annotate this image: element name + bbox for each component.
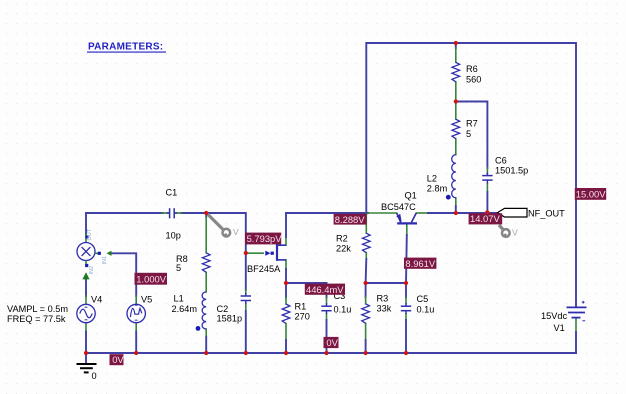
junction node gate of J1 xyxy=(244,251,248,255)
bias label 8.961V xyxy=(404,258,436,269)
svg-text:2.8m: 2.8m xyxy=(427,184,448,194)
wire: bottom ground rail xyxy=(86,352,576,354)
wire: emitter pin wire green xyxy=(368,212,397,214)
capacitor C6 xyxy=(482,173,492,184)
voltage probe 2 xyxy=(499,225,518,238)
capacitor C3 xyxy=(321,303,331,314)
svg-text:OUT: OUT xyxy=(87,228,93,240)
svg-text:FREQ = 77.5k: FREQ = 77.5k xyxy=(7,314,66,324)
svg-text:C6: C6 xyxy=(495,156,507,166)
svg-text:1501.5p: 1501.5p xyxy=(495,166,528,176)
svg-text:22k: 22k xyxy=(336,244,351,254)
svg-text:14.07V: 14.07V xyxy=(470,213,500,224)
inductor L2 xyxy=(452,155,456,198)
wire: C3 branch xyxy=(326,283,328,298)
wire: C1 green pin leads xyxy=(162,212,168,214)
multiplier MULT xyxy=(77,228,112,279)
svg-text:R6: R6 xyxy=(466,64,478,74)
resistor R6 xyxy=(452,62,460,82)
junction node R6 top on supply rail xyxy=(454,41,458,45)
wires layer xyxy=(86,43,576,353)
svg-text:5: 5 xyxy=(176,263,181,273)
resistor R1 xyxy=(282,304,290,324)
junction node C6 bottom on output wire xyxy=(485,210,489,214)
wire: multiplier IN1 to V5 xyxy=(111,253,136,296)
svg-text:BF245A: BF245A xyxy=(247,264,281,274)
svg-text:L1: L1 xyxy=(174,294,184,304)
source V1 15Vdc battery xyxy=(567,307,587,317)
inductor L1 xyxy=(202,292,206,329)
wire: Q1 base down xyxy=(406,225,408,235)
svg-text:V: V xyxy=(512,228,518,238)
wire: JFET source down to source node xyxy=(285,260,287,269)
wire: collector node to NF_OUT xyxy=(416,212,428,214)
wire: multiplier to V4 xyxy=(85,280,87,297)
resistor R3 xyxy=(362,304,370,324)
svg-text:R1: R1 xyxy=(295,302,307,312)
bias label 5.793pV xyxy=(245,233,282,245)
junction node R6/R7/C6 xyxy=(454,99,458,103)
bias label 0V mid xyxy=(324,337,339,348)
junction node R3 bottom xyxy=(364,351,368,355)
source V4 xyxy=(77,304,95,322)
wire: R1 branch xyxy=(285,283,287,298)
svg-text:5: 5 xyxy=(466,129,471,139)
svg-text:33k: 33k xyxy=(377,304,392,314)
svg-text:0: 0 xyxy=(92,371,97,381)
svg-text:5.793pV: 5.793pV xyxy=(247,233,283,244)
bias label 15.00V xyxy=(575,188,606,200)
svg-text:R7: R7 xyxy=(466,119,478,129)
capacitor C1 xyxy=(166,208,177,218)
svg-text:1.000V: 1.000V xyxy=(136,273,166,284)
capacitor C5 xyxy=(401,303,411,314)
resistor R2 xyxy=(363,233,371,253)
transistor Q1 BC547C xyxy=(396,213,417,223)
svg-text:0V: 0V xyxy=(112,354,124,365)
ground 0 xyxy=(77,353,97,381)
svg-text:R2: R2 xyxy=(336,234,348,244)
svg-text:V4: V4 xyxy=(91,295,102,305)
junction node L1 bottom xyxy=(204,351,208,355)
capacitor C2 xyxy=(241,293,251,304)
svg-text:IN2: IN2 xyxy=(89,266,95,275)
svg-text:C2: C2 xyxy=(217,304,229,314)
junction node C3 bottom xyxy=(324,351,328,355)
svg-text:C1: C1 xyxy=(166,188,178,198)
junction node C5 bottom xyxy=(404,351,408,355)
resistor R8 xyxy=(202,253,210,272)
junction node V5 bottom xyxy=(134,351,138,355)
svg-text:IN1: IN1 xyxy=(102,256,108,265)
svg-text:0.1u: 0.1u xyxy=(417,305,435,315)
svg-text:BC547C: BC547C xyxy=(381,202,416,212)
wire: C6 branch xyxy=(456,102,488,169)
svg-text:560: 560 xyxy=(466,75,481,85)
junction node C2 bottom xyxy=(244,351,248,355)
svg-text:R3: R3 xyxy=(377,294,389,304)
junction node R8 top on gate rail xyxy=(204,211,208,215)
svg-text:8.961V: 8.961V xyxy=(405,258,435,269)
svg-text:15Vdc: 15Vdc xyxy=(541,311,567,321)
svg-text:Q1: Q1 xyxy=(405,191,417,201)
wire: V1 bottom to bottom rail xyxy=(575,319,577,332)
JFET J1 BF245A xyxy=(246,244,286,261)
svg-text:C5: C5 xyxy=(417,294,429,304)
junction node Q1 collector / L2 xyxy=(454,211,458,215)
svg-text:0.1u: 0.1u xyxy=(334,305,352,315)
source V5 xyxy=(127,304,145,322)
wire: base node horizontal xyxy=(366,282,406,284)
voltage probe 1 xyxy=(208,214,240,237)
junction node R2/R3 divider xyxy=(364,281,368,285)
bias label 0V left xyxy=(110,354,125,365)
svg-text:PARAMETERS:: PARAMETERS: xyxy=(88,41,163,52)
wire: drain rail to R2 crossing xyxy=(286,212,368,214)
junction node Q1 base / C5 xyxy=(404,281,408,285)
svg-text:2.64m: 2.64m xyxy=(172,304,198,314)
wire: gate node down through C2 to bottom rail xyxy=(245,253,247,290)
wire: top gate rail from multiplier to C1 to corner xyxy=(86,213,163,234)
svg-text:VAMPL = 0.5m: VAMPL = 0.5m xyxy=(7,304,68,314)
svg-text:10p: 10p xyxy=(166,231,181,241)
svg-text:15.00V: 15.00V xyxy=(576,189,606,200)
svg-text:446.4mV: 446.4mV xyxy=(306,284,344,295)
svg-text:270: 270 xyxy=(295,312,310,322)
off-page connector NF_OUT xyxy=(498,208,566,218)
bias label 14.07V xyxy=(469,213,503,224)
wire: JFET drain up to drain rail xyxy=(285,237,287,245)
wire: R6 R7 L2 chain xyxy=(455,43,457,48)
svg-text:1581p: 1581p xyxy=(217,314,243,324)
bias label 8.288V xyxy=(334,214,367,225)
svg-text:V1: V1 xyxy=(554,323,565,333)
junction node R1 bottom xyxy=(284,351,288,355)
svg-text:V: V xyxy=(233,227,239,237)
wire: R2 vertical from top rail through crossing xyxy=(365,43,367,214)
wire: top supply rail xyxy=(366,43,576,306)
svg-text:0V: 0V xyxy=(326,337,338,348)
wire: C1 right lead to corner and down to gate node xyxy=(181,213,246,253)
resistor R7 xyxy=(452,119,460,139)
svg-text:L2: L2 xyxy=(427,174,437,184)
wire: R3 branch xyxy=(365,283,367,297)
svg-text:V5: V5 xyxy=(141,295,152,305)
svg-text:NF_OUT: NF_OUT xyxy=(528,209,565,219)
wire: R8 branch vertical xyxy=(205,213,207,217)
bias label 446.4mV xyxy=(305,284,345,295)
junction node ground / V4 xyxy=(84,351,88,355)
bias label 1.000V xyxy=(135,273,168,285)
junction node source of J1 xyxy=(284,281,288,285)
wire: C5 branch xyxy=(405,283,407,298)
wire: source node to C3 xyxy=(286,282,327,284)
svg-text:8.288V: 8.288V xyxy=(335,214,365,225)
